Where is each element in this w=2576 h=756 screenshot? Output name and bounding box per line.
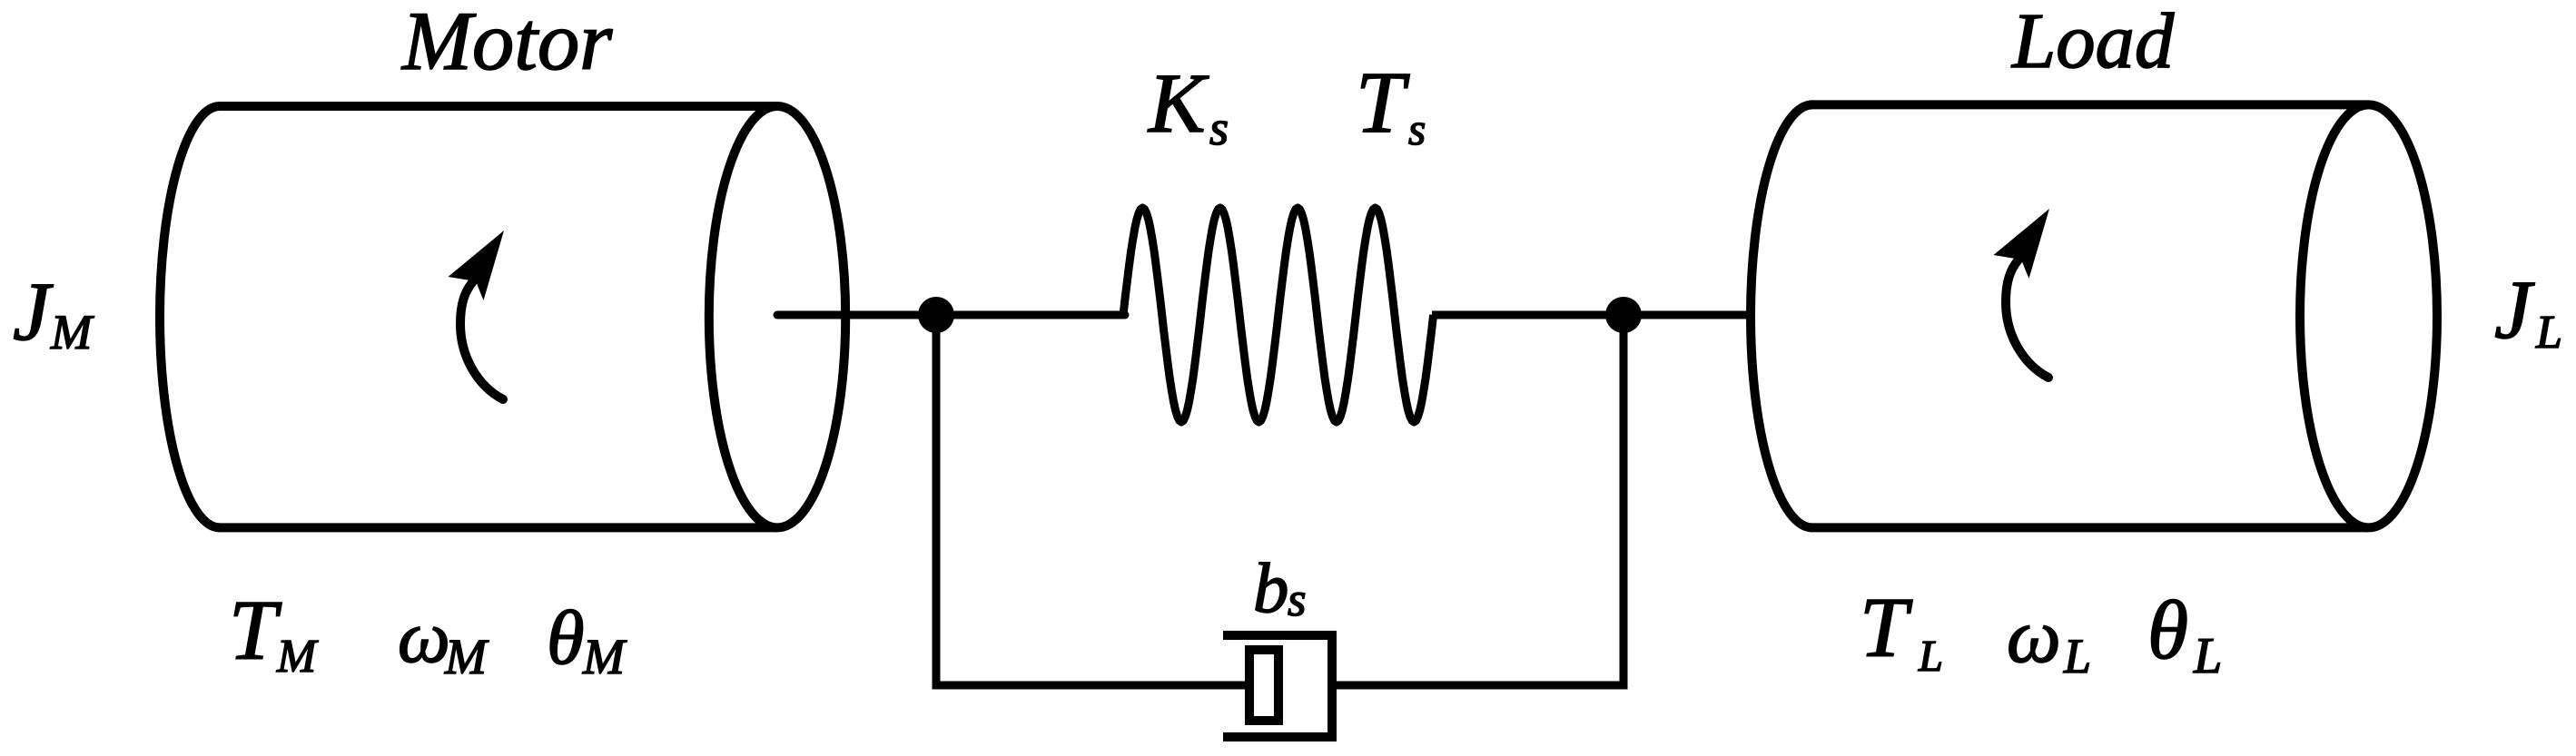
svg-text:M: M bbox=[50, 305, 94, 359]
svg-text:Motor: Motor bbox=[400, 0, 613, 88]
svg-text:M: M bbox=[444, 629, 489, 684]
node B: right shaft junction bbox=[1605, 297, 1642, 333]
svg-text:L: L bbox=[2063, 629, 2091, 683]
svg-text:s: s bbox=[1408, 104, 1426, 154]
svg-text:θ: θ bbox=[547, 596, 585, 681]
shaft wire from spring to load bbox=[1432, 311, 1754, 319]
motor cylinder J_M: left end cap arc bbox=[160, 106, 220, 527]
svg-text:θ: θ bbox=[2147, 584, 2188, 676]
motor cylinder top edge bbox=[218, 102, 777, 111]
svg-text:s: s bbox=[1209, 101, 1229, 155]
svg-text:T: T bbox=[229, 584, 282, 678]
node A: left shaft junction bbox=[918, 297, 954, 333]
load cylinder top edge bbox=[1811, 100, 2368, 109]
wire: node B down to damper bottom rail bbox=[1332, 315, 1624, 685]
load cylinder bottom edge bbox=[1811, 523, 2368, 532]
svg-text:T: T bbox=[1860, 580, 1913, 675]
svg-text:b: b bbox=[1253, 549, 1288, 628]
svg-text:T: T bbox=[1356, 54, 1410, 151]
shaft wire from motor face to node A bbox=[777, 311, 1125, 319]
svg-text:M: M bbox=[582, 629, 627, 684]
wire: node A down to damper bottom rail bbox=[936, 315, 1246, 685]
motor cylinder bottom edge bbox=[218, 523, 777, 532]
svg-text:M: M bbox=[276, 631, 319, 682]
svg-text:ω: ω bbox=[2007, 594, 2061, 679]
load cylinder J_L: left end cap arc bbox=[1751, 104, 1812, 527]
svg-text:K: K bbox=[1147, 57, 1209, 151]
load rotation arrow bbox=[1994, 209, 2050, 378]
svg-text:s: s bbox=[1288, 574, 1306, 626]
svg-text:J: J bbox=[2494, 263, 2535, 356]
svg-text:L: L bbox=[1918, 633, 1943, 681]
load cylinder right face ellipse bbox=[2300, 104, 2437, 527]
svg-text:ω: ω bbox=[398, 595, 450, 678]
svg-text:L: L bbox=[2193, 628, 2222, 684]
svg-text:J: J bbox=[13, 265, 54, 358]
svg-text:Load: Load bbox=[2010, 0, 2175, 84]
motor cylinder right face ellipse bbox=[709, 106, 845, 527]
damper bs cylinder cup bbox=[1223, 635, 1332, 737]
damper bs piston bbox=[1249, 650, 1278, 721]
svg-text:L: L bbox=[2535, 307, 2562, 358]
spring Ks (shaft compliance) bbox=[1123, 208, 1434, 422]
motor rotation arrow bbox=[449, 231, 505, 399]
